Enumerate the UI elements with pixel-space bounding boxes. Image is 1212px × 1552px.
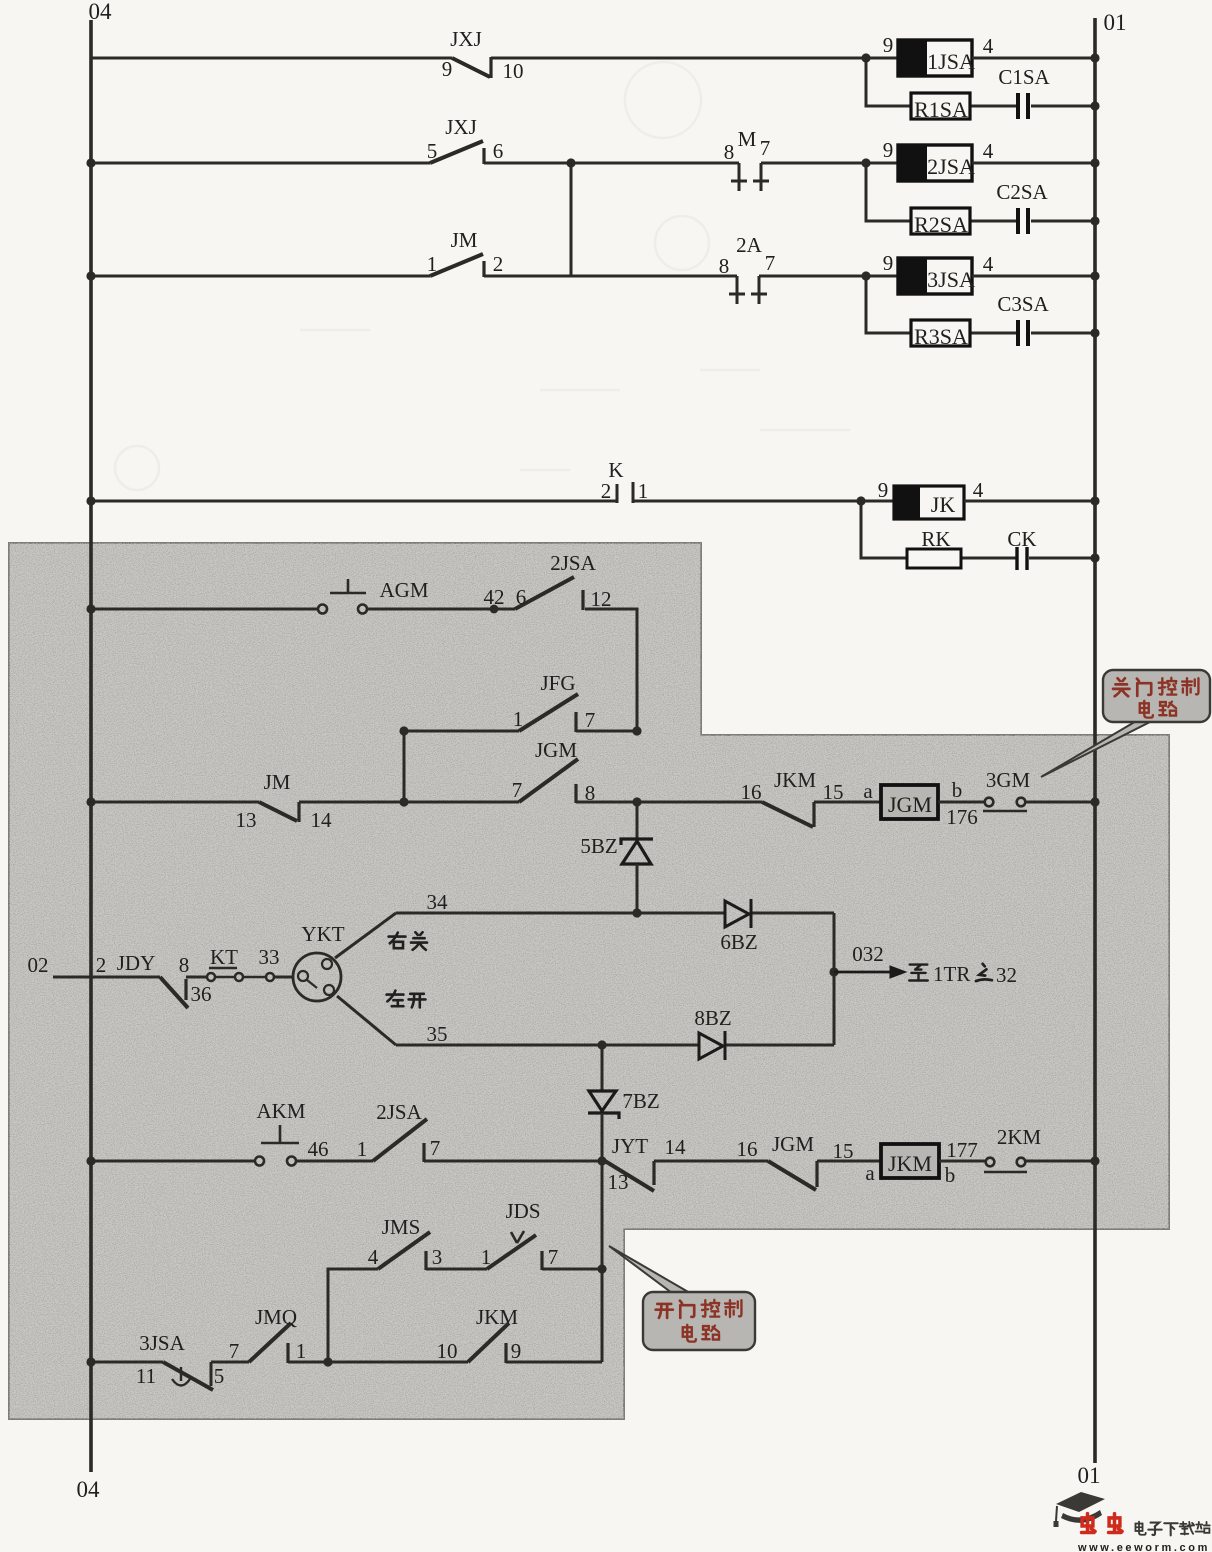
wire coil JKM to 2KM (939, 1160, 985, 1163)
svg-text:JKM: JKM (774, 768, 816, 792)
svg-text:9: 9 (878, 478, 889, 502)
svg-text:C1SA: C1SA (998, 65, 1050, 89)
wire 3GM to bus 01 (1025, 801, 1095, 804)
wire link x404 JFG row to main rung (403, 731, 406, 802)
relay coil 2JSA (883, 138, 994, 181)
svg-text:b: b (945, 1163, 956, 1187)
svg-text:JKM: JKM (476, 1305, 518, 1329)
svg-text:8: 8 (719, 254, 730, 278)
contact JXJ 5-6 (NO) (430, 141, 484, 164)
node 032 tap (829, 967, 838, 976)
wire rung1 right segment (491, 57, 898, 60)
svg-text:8BZ: 8BZ (694, 1006, 731, 1030)
contact JGM 16-15 (NC) (768, 1161, 817, 1190)
wire K-rung left (91, 500, 617, 503)
wire x404 to JGM contact (404, 801, 519, 804)
svg-text:1TR: 1TR (933, 962, 970, 986)
faint scan ghosts (115, 62, 850, 490)
svg-text:04: 04 (77, 1477, 101, 1502)
wire JMS row left corner (328, 1269, 378, 1362)
svg-text:7: 7 (229, 1339, 240, 1363)
svg-text:3GM: 3GM (986, 768, 1031, 792)
svg-text:AKM: AKM (256, 1099, 305, 1123)
node bus01 rung3 (1090, 271, 1099, 280)
wire JGM to x637 (576, 801, 637, 804)
wire rung3 left segment (91, 275, 430, 278)
wire 34-row corner down (833, 913, 836, 1045)
wire YKT to 35-row corner (337, 996, 396, 1045)
contact JMS 4-3 (NO) (378, 1232, 430, 1270)
wire x637 down to zener (636, 802, 639, 839)
svg-text:4: 4 (983, 139, 994, 163)
contact 3JSA 11-5 (NC, time delay) (163, 1362, 213, 1390)
svg-text:7: 7 (765, 251, 776, 275)
svg-text:1: 1 (296, 1339, 307, 1363)
svg-text:4: 4 (983, 34, 994, 58)
svg-text:35: 35 (427, 1022, 448, 1046)
svg-text:2JSA: 2JSA (376, 1100, 422, 1124)
contact 2A 8-7 (729, 276, 767, 304)
wire rung2 left segment (91, 162, 430, 165)
wire 2JSA to corner down to JFG row (585, 609, 637, 731)
wire coil 1JSA to bus 01 (972, 57, 1095, 60)
svg-text:9: 9 (442, 57, 453, 81)
net label: to 1TR terminal 32 (zhi 1TR zhi 32) (909, 962, 1017, 987)
watermark logo eeworm (1054, 1492, 1210, 1552)
wire x328 to JKM contact (328, 1361, 468, 1364)
svg-text:JGM: JGM (772, 1132, 814, 1156)
svg-text:1: 1 (513, 707, 524, 731)
node x404 main rung (399, 797, 408, 806)
svg-text:JFG: JFG (540, 671, 575, 695)
diode 8BZ (699, 1031, 725, 1060)
svg-text:15: 15 (823, 780, 844, 804)
wire zener to 34-row (636, 864, 639, 913)
pushbutton AGM (318, 579, 367, 614)
svg-text:6: 6 (493, 139, 504, 163)
svg-text:JM: JM (451, 228, 478, 252)
wire JGM to coil JKM (817, 1160, 881, 1163)
svg-text:JK: JK (931, 492, 956, 517)
svg-text:www.eeworm.com: www.eeworm.com (1077, 1542, 1210, 1552)
diode 6BZ (725, 899, 751, 928)
svg-text:CK: CK (1007, 527, 1036, 551)
cam controller YKT (293, 953, 341, 1001)
wire AKM to 2JSA (296, 1160, 373, 1163)
node bus04 AGM rung (86, 604, 95, 613)
node junction 35-row x602 (597, 1040, 606, 1049)
wire AGM to 2JSA contact (367, 608, 515, 611)
svg-text:7: 7 (548, 1245, 559, 1269)
svg-text:9: 9 (511, 1339, 522, 1363)
annotation 35-branch left-open (zuo-kai) (387, 991, 426, 1008)
svg-text:6BZ: 6BZ (720, 930, 757, 954)
node bus01 snubber2 (1090, 216, 1099, 225)
zener diode 5BZ (621, 839, 653, 864)
svg-text:R1SA: R1SA (914, 97, 968, 122)
svg-text:5: 5 (214, 1364, 225, 1388)
svg-text:46: 46 (308, 1137, 329, 1161)
svg-text:1: 1 (427, 252, 438, 276)
node x602 open-door rung (597, 1156, 606, 1165)
shaded control-circuit region (9, 543, 1169, 1419)
capacitor CK (1007, 527, 1036, 570)
wire coil JGM to 3GM (938, 801, 985, 804)
node bus04 K-rung (86, 496, 95, 505)
node bus01 snubber3 (1090, 328, 1099, 337)
node bus04 rung3 (86, 271, 95, 280)
svg-text:a: a (863, 779, 873, 803)
wire main rung to JM contact (91, 801, 259, 804)
wire 02 entry line (53, 976, 160, 979)
wire arrow to 1TR-32 (834, 966, 906, 978)
wire 2KM to bus 01 (1025, 1160, 1095, 1163)
contact JM 13-14 (NC) (259, 802, 299, 822)
wire 2JSA to x602 (424, 1160, 602, 1163)
node bus01 K-rung (1090, 496, 1099, 505)
contact 2JSA 6-12 (NO) (515, 577, 583, 610)
svg-text:8: 8 (179, 953, 190, 977)
wire rung2 middle (484, 162, 739, 165)
contact JKM 10-9 (NO) (468, 1323, 509, 1363)
svg-text:1: 1 (481, 1245, 492, 1269)
svg-text:JYT: JYT (612, 1134, 648, 1158)
contact M 8-7 (731, 163, 769, 191)
svg-text:01: 01 (1104, 10, 1127, 35)
svg-text:C2SA: C2SA (996, 180, 1048, 204)
svg-text:42: 42 (484, 585, 505, 609)
node junction rung2 x571 (566, 158, 575, 167)
svg-text:01: 01 (1078, 1463, 1101, 1488)
capacitor C1SA (998, 65, 1050, 119)
switch K 2-1 (617, 482, 633, 503)
wire AGM rung left (91, 608, 318, 611)
node bus04 open-door rung (86, 1156, 95, 1165)
thermal contact JDS 1-7 (487, 1231, 542, 1270)
wire rung2 right (761, 162, 898, 165)
svg-text:4: 4 (973, 478, 984, 502)
svg-text:8: 8 (724, 140, 735, 164)
svg-text:2: 2 (493, 252, 504, 276)
wire KT to YKT (274, 976, 294, 979)
wire JMQ to node x328 (288, 1361, 328, 1364)
node bus01 rung2 (1090, 158, 1099, 167)
wire snubber1 branch (866, 58, 1095, 106)
pushbutton AKM (255, 1125, 299, 1166)
svg-text:2A: 2A (736, 233, 763, 257)
svg-text:14: 14 (665, 1135, 687, 1159)
node x637 main rung (632, 797, 641, 806)
node x637 JFG row (632, 726, 641, 735)
contact JYT 13-14 (NC) (605, 1161, 654, 1191)
svg-text:10: 10 (503, 59, 524, 83)
svg-text:YKT: YKT (301, 922, 344, 946)
wire rung3 middle (484, 275, 737, 278)
wire YKT to 34-row corner (335, 913, 396, 958)
relay coil 1JSA (883, 33, 994, 76)
svg-text:1: 1 (638, 479, 649, 503)
svg-text:3JSA: 3JSA (927, 267, 975, 292)
wire x602 link down through JMS row to bottom row (601, 1161, 604, 1362)
svg-text:12: 12 (591, 587, 612, 611)
wire coil JK to bus 01 (964, 500, 1095, 503)
node bus04 rung2 (86, 158, 95, 167)
wire JKM to coil JGM (814, 801, 881, 804)
contact JKM 16-15 (NC) (762, 802, 814, 827)
wire rung3 right (759, 275, 898, 278)
svg-text:6: 6 (516, 585, 527, 609)
svg-text:11: 11 (136, 1364, 156, 1388)
svg-text:2: 2 (601, 479, 612, 503)
svg-text:7BZ: 7BZ (622, 1089, 659, 1113)
svg-text:10: 10 (437, 1339, 458, 1363)
limit switch 3GM (983, 798, 1027, 811)
node junction rung3/snubber3 (861, 271, 870, 280)
svg-text:JXJ: JXJ (450, 27, 482, 51)
changeover contact JDY 8-36 (160, 977, 188, 1008)
svg-text:JDS: JDS (505, 1199, 540, 1223)
wire JMS to JDS (426, 1268, 487, 1271)
svg-text:9: 9 (883, 33, 894, 57)
svg-text:1: 1 (357, 1137, 368, 1161)
bus 04 (left vertical supply line) (77, 0, 113, 1502)
svg-text:176: 176 (946, 805, 978, 829)
node bus01 rung1 (1090, 53, 1099, 62)
contact JMQ 7-1 (NO) (249, 1323, 291, 1363)
node junction rung2/snubber2 (861, 158, 870, 167)
svg-text:16: 16 (737, 1137, 758, 1161)
svg-text:RK: RK (921, 527, 950, 551)
zener diode 7BZ (588, 1091, 619, 1119)
contact 2JSA 1-7 (NO) (373, 1119, 427, 1162)
wire JDS to x602 (542, 1268, 602, 1271)
wire x637 to JKM contact (637, 801, 762, 804)
callout open-door control circuit (kai men kong zhi dian lu) (609, 1246, 755, 1350)
wire JFG to x637 (576, 730, 637, 733)
contact JFG 1-7 (NO) (519, 694, 578, 732)
wire coil 2JSA to bus 01 (972, 162, 1095, 165)
wire zener 7BZ to open-door rung (601, 1113, 604, 1161)
svg-text:JM: JM (264, 770, 291, 794)
wire 35-row (396, 1044, 834, 1047)
resistor R3SA (911, 320, 970, 349)
svg-text:4: 4 (983, 252, 994, 276)
wire JFG row left (404, 730, 519, 733)
wire bottom rung left (91, 1361, 163, 1364)
svg-text:9: 9 (883, 138, 894, 162)
node bus04 bottom rung (86, 1357, 95, 1366)
svg-text:JMS: JMS (382, 1215, 421, 1239)
node JFG row left (399, 726, 408, 735)
svg-text:14: 14 (311, 808, 333, 832)
svg-text:2JSA: 2JSA (927, 154, 975, 179)
svg-text:JMQ: JMQ (255, 1305, 297, 1329)
svg-text:a: a (865, 1161, 875, 1185)
wire JDY to KT (186, 976, 207, 979)
svg-text:C3SA: C3SA (997, 292, 1049, 316)
wire 34-row (396, 912, 834, 915)
svg-text:7: 7 (512, 778, 523, 802)
svg-text:1JSA: 1JSA (927, 49, 975, 74)
svg-text:JDY: JDY (117, 951, 156, 975)
svg-text:177: 177 (946, 1138, 978, 1162)
wire open-door rung left (91, 1160, 255, 1163)
wire JM to x404 node (299, 801, 404, 804)
svg-text:2: 2 (96, 953, 107, 977)
svg-text:13: 13 (236, 808, 257, 832)
svg-text:M: M (738, 127, 757, 151)
relay coil JKM (865, 1138, 977, 1187)
svg-text:3: 3 (432, 1245, 443, 1269)
svg-text:15: 15 (833, 1139, 854, 1163)
svg-text:JXJ: JXJ (445, 115, 477, 139)
limit switch 2KM (984, 1158, 1027, 1172)
svg-text:AGM: AGM (379, 578, 428, 602)
svg-text:JKM: JKM (888, 1151, 932, 1176)
wire rung1 left segment (91, 57, 452, 60)
svg-text:KT: KT (210, 945, 238, 969)
node x637 34-row (632, 908, 641, 917)
resistor RK (907, 527, 961, 568)
contact JGM 7-8 (NO) (519, 759, 578, 803)
svg-text:2KM: 2KM (997, 1125, 1042, 1149)
wire snubber3 branch (866, 276, 1095, 333)
contact KT 8-33 (207, 968, 274, 981)
capacitor C3SA (997, 292, 1049, 346)
svg-text:7: 7 (430, 1136, 441, 1160)
wire 3JSA to JMQ (211, 1361, 249, 1364)
svg-text:5BZ: 5BZ (580, 834, 617, 858)
relay coil JGM (863, 778, 977, 829)
node pivot 42 (490, 605, 499, 614)
svg-text:36: 36 (191, 982, 212, 1006)
svg-text:4: 4 (368, 1245, 379, 1269)
node bus04 main rung (86, 797, 95, 806)
svg-text:9: 9 (883, 251, 894, 275)
wire link x571 down to rung3 (570, 163, 573, 276)
svg-text:7: 7 (585, 708, 596, 732)
relay coil 3JSA (883, 251, 994, 294)
node junction rung1/snubber1 (861, 53, 870, 62)
contact JXJ 9-10 (NC) (452, 57, 491, 78)
capacitor C2SA (996, 180, 1048, 234)
svg-text:04: 04 (89, 0, 113, 24)
wire RK branch (861, 501, 1095, 558)
callout close-door control circuit (guan men kong zhi dian lu) (1041, 670, 1210, 777)
wire JKM to x602 (506, 1361, 602, 1364)
svg-text:b: b (952, 778, 963, 802)
node x328 bottom rung (323, 1357, 332, 1366)
wire snubber2 branch (866, 163, 1095, 221)
svg-text:34: 34 (427, 890, 449, 914)
resistor R2SA (911, 208, 970, 237)
node bus01 snubber1 (1090, 101, 1099, 110)
node junction JK/RK (856, 496, 865, 505)
svg-text:02: 02 (28, 953, 49, 977)
svg-text:33: 33 (259, 945, 280, 969)
svg-text:13: 13 (608, 1170, 629, 1194)
annotation 34-branch right-close (you-guan) (389, 932, 427, 950)
svg-text:JGM: JGM (535, 738, 577, 762)
svg-text:032: 032 (852, 942, 884, 966)
svg-text:JGM: JGM (888, 792, 932, 817)
relay coil JK (878, 478, 984, 519)
svg-text:R2SA: R2SA (914, 212, 968, 237)
node bus01 main rung (1090, 797, 1099, 806)
resistor R1SA (911, 93, 970, 122)
svg-text:2JSA: 2JSA (550, 551, 596, 575)
contact JM 1-2 (NO) (430, 254, 484, 277)
svg-text:R3SA: R3SA (914, 324, 968, 349)
svg-text:7: 7 (760, 136, 771, 160)
node x602 JMS row (597, 1264, 606, 1273)
wire JYT to JGM contact (654, 1160, 768, 1163)
wire x602 down to zener 7BZ (601, 1045, 604, 1091)
svg-text:16: 16 (741, 780, 762, 804)
node bus01 RK branch (1090, 553, 1099, 562)
wire K-rung right (633, 500, 894, 503)
node bus01 open-door rung (1090, 1156, 1099, 1165)
svg-text:32: 32 (996, 963, 1017, 987)
svg-text:5: 5 (427, 139, 438, 163)
svg-text:3JSA: 3JSA (139, 1331, 185, 1355)
wire coil 3JSA to bus 01 (972, 275, 1095, 278)
bus 01 (right vertical supply line) (1078, 10, 1127, 1488)
